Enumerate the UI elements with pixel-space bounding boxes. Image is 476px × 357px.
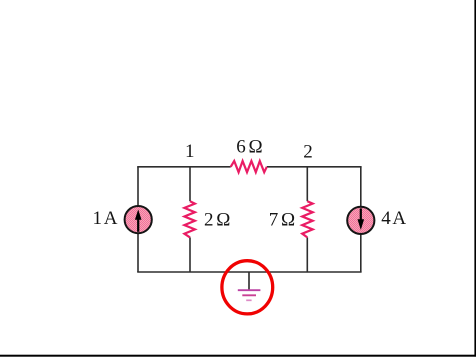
- resistor 7 ohm (node 2 branch): [302, 201, 313, 237]
- svg-text:1 A: 1 A: [93, 208, 118, 229]
- wire: right branch: [360, 167, 362, 272]
- ground stem wire: [248, 272, 250, 290]
- ground bar 1: [238, 289, 261, 291]
- wire: node 1 lower stub: [189, 237, 191, 272]
- current source I1 1A (left, arrow up): [125, 206, 152, 233]
- resistor 6 ohm (between node 1 and node 2): [231, 161, 267, 172]
- wire: bottom rail: [137, 271, 361, 273]
- frame line right: [474, 0, 476, 357]
- svg-text:7 Ω: 7 Ω: [269, 210, 295, 231]
- svg-text:6 Ω: 6 Ω: [236, 137, 262, 158]
- ground bar 3: [246, 299, 251, 301]
- wire: top rail right segment: [267, 166, 362, 168]
- wire: node 1 upper stub: [189, 167, 191, 201]
- frame line bottom: [0, 355, 476, 357]
- red annotation circle around ground: [222, 261, 273, 314]
- svg-text:2: 2: [303, 141, 313, 162]
- svg-text:1: 1: [185, 141, 195, 162]
- wire: node 2 lower stub: [306, 237, 308, 272]
- wire: node 2 upper stub: [306, 167, 308, 201]
- svg-text:4 A: 4 A: [381, 208, 406, 229]
- ground bar 2: [242, 294, 256, 296]
- resistor 2 ohm (node 1 branch): [184, 201, 195, 237]
- current source I2 4A (right, arrow down): [347, 207, 374, 234]
- wire: left branch (node 1 rail to bottom rail): [137, 167, 139, 272]
- svg-text:2 Ω: 2 Ω: [204, 210, 230, 231]
- wire: top rail left segment: [137, 166, 231, 168]
